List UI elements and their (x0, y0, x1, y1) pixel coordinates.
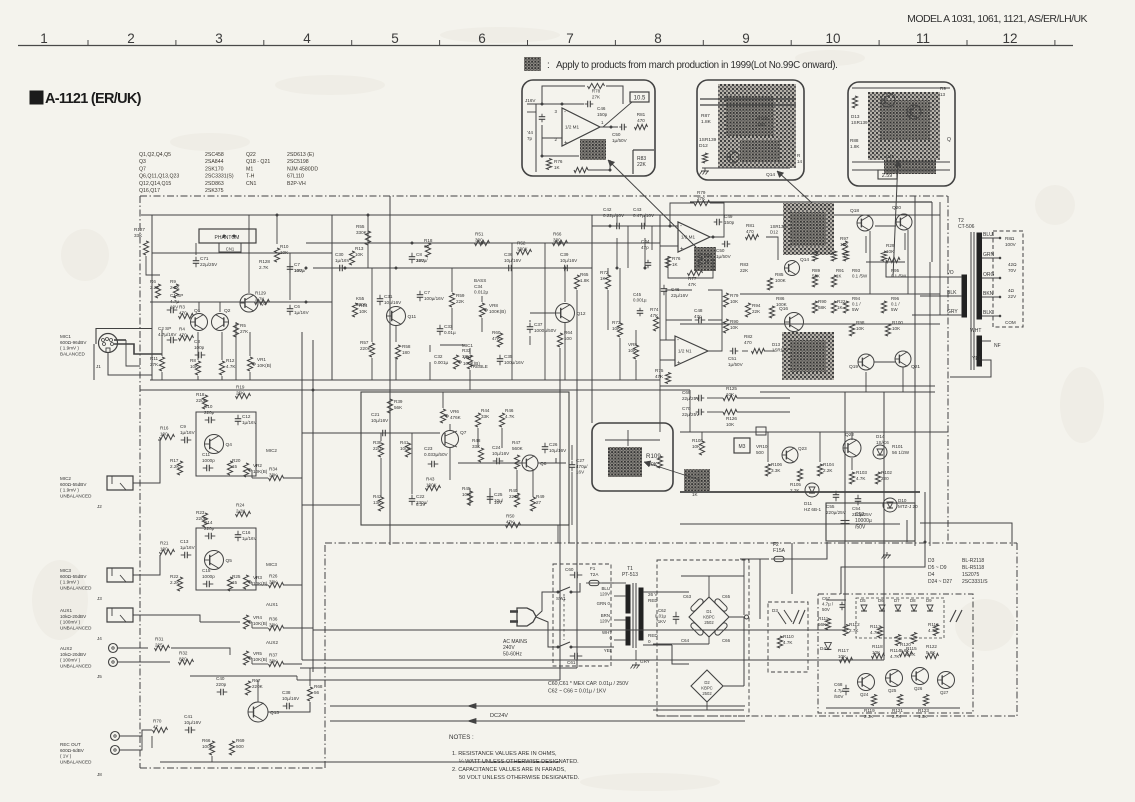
svg-text:220p: 220p (216, 682, 227, 687)
svg-text:BASS: BASS (474, 278, 486, 283)
svg-text:( 1V ): ( 1V ) (60, 754, 72, 759)
svg-text:240V: 240V (503, 645, 515, 651)
svg-text:( 100mV ): ( 100mV ) (60, 620, 81, 625)
svg-text:VR8: VR8 (489, 303, 498, 308)
svg-text:15: 15 (232, 464, 238, 469)
resistor R117 (840, 657, 853, 662)
wire q13 bottom (211, 756, 213, 762)
svg-text:10K: 10K (612, 326, 621, 331)
svg-text:Q16: Q16 (779, 306, 788, 312)
svg-text:MIC3: MIC3 (60, 568, 71, 573)
capacitor C71 (193, 260, 200, 262)
svg-text:BLK: BLK (947, 290, 957, 296)
wire mic3 stage box (196, 528, 256, 590)
wire T2 sec ORG (982, 277, 1000, 279)
transistor Q1 (191, 314, 208, 331)
svg-text:2: 2 (127, 31, 135, 46)
svg-text:BLK: BLK (983, 310, 993, 316)
svg-text:R80: R80 (704, 253, 713, 258)
svg-text:R59: R59 (456, 293, 465, 298)
svg-text:R119: R119 (864, 708, 875, 713)
svg-text:R76: R76 (672, 256, 681, 261)
wire amp mid rails (659, 226, 661, 360)
capacitor C25 (487, 496, 494, 498)
resistor R105 (797, 469, 802, 481)
svg-text:R23: R23 (196, 510, 205, 515)
svg-text:R9: R9 (170, 279, 176, 284)
switch SW1 pole1 (558, 587, 570, 592)
svg-text:10K(B): 10K(B) (253, 621, 268, 626)
svg-text:2.7K: 2.7K (255, 296, 265, 301)
rectifier dashed box (657, 560, 749, 716)
svg-text:R65: R65 (580, 272, 589, 277)
svg-text:R129: R129 (255, 291, 266, 296)
switch box SW1 dashed (553, 564, 611, 666)
svg-text:NJM 4580DD: NJM 4580DD (287, 166, 318, 172)
svg-text:C8: C8 (416, 252, 422, 257)
svg-text:C2 SP: C2 SP (158, 326, 171, 331)
resistor R49 (530, 497, 535, 511)
wire reg bottom rail (680, 523, 900, 525)
svg-text:16V: 16V (576, 470, 585, 475)
connector PHANTOM header (199, 229, 256, 243)
label R83 22K corner (633, 149, 654, 151)
svg-text:M3: M3 (739, 444, 746, 450)
svg-text:10K: 10K (730, 325, 739, 330)
svg-text:AUX2: AUX2 (266, 640, 278, 645)
svg-text:VR3: VR3 (253, 575, 262, 580)
svg-text:120V: 120V (600, 619, 610, 624)
wire box3 top (852, 87, 950, 89)
svg-text:D9: D9 (926, 598, 932, 603)
wire down feed x560 (559, 380, 561, 680)
capacitor C70 (698, 409, 700, 416)
svg-text:R41: R41 (400, 440, 409, 445)
svg-text:2SC3331(S): 2SC3331(S) (205, 174, 234, 180)
wire box1 top loop (542, 86, 585, 104)
resistor R102 (875, 472, 880, 484)
svg-text:D13: D13 (772, 342, 781, 347)
svg-text:600Ω-55dBV: 600Ω-55dBV (60, 574, 87, 579)
svg-text:J8: J8 (97, 772, 102, 777)
svg-text:10kΩ-20dBV: 10kΩ-20dBV (60, 652, 87, 657)
svg-text:J5: J5 (97, 674, 102, 679)
svg-text:12: 12 (1002, 31, 1017, 46)
transistor Q27 (938, 672, 955, 689)
resistor R123 (923, 695, 928, 706)
wire reg verticals (701, 432, 703, 440)
resistor R129 (255, 299, 270, 304)
svg-text:50 VOLT UNLESS OTHERWISE DESIG: 50 VOLT UNLESS OTHERWISE DESIGNATED. (459, 775, 580, 781)
halftone blob box2 (718, 84, 796, 168)
resistor R64 (557, 333, 562, 347)
wire bottom collect y668 (300, 667, 577, 669)
svg-text:NF: NF (994, 343, 1001, 349)
wire opampB rails (660, 339, 675, 341)
resistor R111 (825, 619, 830, 630)
svg-text:R42: R42 (373, 494, 382, 499)
svg-text:I/O: I/O (947, 270, 954, 276)
wire board feed step (841, 542, 925, 594)
transistor Q inset3 a (881, 93, 895, 107)
svg-text:MIC1: MIC1 (462, 343, 473, 348)
svg-text:D1: D1 (706, 609, 712, 614)
resistor R38 (378, 443, 383, 457)
svg-text:1K: 1K (837, 305, 844, 310)
transistor Q18 (857, 215, 873, 231)
svg-text:Q21: Q21 (911, 364, 920, 370)
arrow dc24 b (468, 719, 476, 724)
svg-text:22K: 22K (740, 268, 749, 273)
svg-text:R69: R69 (236, 738, 245, 743)
svg-text:R9: R9 (940, 86, 946, 91)
connector J5 rca a (109, 644, 118, 653)
wire q19 q21 join (874, 361, 895, 363)
svg-text:J16V: J16V (525, 98, 536, 103)
resistor R81 main (746, 234, 759, 239)
svg-text:R91: R91 (836, 268, 845, 273)
svg-text:4.7µ: 4.7µ (834, 688, 843, 693)
inset box2 outline (697, 80, 804, 180)
svg-text:330K: 330K (356, 302, 368, 307)
svg-text:220: 220 (373, 446, 381, 451)
svg-text:R31: R31 (155, 637, 164, 642)
svg-text:2502: 2502 (702, 691, 712, 696)
led D3 sym (778, 612, 786, 624)
svg-text:AUX1: AUX1 (60, 608, 72, 613)
capacitor C59 (841, 520, 850, 522)
svg-text:F1: F1 (590, 566, 596, 571)
svg-text:CN1: CN1 (226, 247, 235, 252)
svg-text:10V: 10V (170, 305, 179, 310)
svg-text:R120: R120 (900, 642, 911, 647)
connector J3 jack (107, 568, 133, 582)
capacitor C22 (409, 498, 416, 500)
wire y676 rail (190, 675, 297, 677)
svg-text:C70: C70 (682, 406, 691, 411)
svg-text:47p: 47p (694, 314, 702, 319)
svg-text:R5: R5 (240, 323, 246, 328)
boundary right dash-dot (947, 196, 949, 543)
svg-text:C48: C48 (694, 308, 703, 313)
svg-text:R57: R57 (360, 340, 369, 345)
svg-text:C10: C10 (204, 404, 213, 409)
wire tone vertical x512 (511, 243, 513, 380)
resistor R118 (872, 653, 885, 658)
capacitor C50 (621, 124, 623, 131)
wire q8 out (538, 458, 556, 463)
inset box3 outline (848, 82, 955, 186)
svg-text:150p: 150p (597, 112, 608, 117)
grid tick (878, 40, 880, 46)
svg-text:BALANCED: BALANCED (60, 351, 85, 356)
label 2.59 box (878, 170, 897, 179)
resistor R17 (177, 461, 182, 475)
svg-text:33K: 33K (269, 658, 278, 663)
transistor Q11 (387, 307, 406, 326)
wire stage mid rail (150, 301, 332, 303)
svg-text:0.1 /: 0.1 / (891, 302, 900, 307)
transistor Q5 (205, 551, 224, 570)
resistor R65 (574, 275, 579, 289)
wire toneblk q8 row (458, 462, 522, 464)
svg-text:Q3: Q3 (139, 159, 146, 165)
wire mic1 mid rail y253 (152, 252, 332, 254)
svg-text:AUX1: AUX1 (266, 602, 278, 607)
wire T2 sec BKN (982, 296, 1000, 298)
svg-text:C42: C42 (603, 207, 612, 212)
capacitor C1 input (539, 116, 546, 118)
svg-text:C27: C27 (576, 458, 585, 463)
svg-text:C34: C34 (474, 284, 483, 289)
resistor R58 (395, 345, 400, 359)
svg-text:33K: 33K (269, 472, 278, 477)
capacitor C68 (843, 688, 850, 690)
wire t1 leads left (614, 582, 626, 584)
svg-text:Q1: Q1 (194, 308, 201, 314)
wire phantom drop (195, 243, 197, 255)
wire toneblk top stub (442, 392, 444, 408)
capacitor C43 (641, 223, 643, 230)
svg-text:AC MAINS: AC MAINS (503, 639, 528, 645)
resistor R81 (635, 124, 648, 129)
wire coupling drops (627, 226, 629, 268)
svg-text:R8: R8 (190, 358, 196, 363)
wire psu rail y559 (789, 558, 827, 560)
resistor R108 (699, 441, 704, 455)
svg-text:10µ/16V: 10µ/16V (384, 300, 402, 305)
svg-text:0.033µ/50V: 0.033µ/50V (424, 452, 449, 457)
svg-text:UNBALANCED: UNBALANCED (60, 759, 92, 764)
resistor R39 (387, 399, 392, 413)
wire V+ top rail (141, 214, 940, 216)
svg-text:22K: 22K (637, 162, 647, 168)
svg-text:Q6,Q11,Q13,Q23: Q6,Q11,Q13,Q23 (139, 174, 179, 180)
svg-text:4.7K: 4.7K (890, 654, 900, 659)
svg-text:R58: R58 (402, 344, 411, 349)
svg-text:10000µ: 10000µ (855, 518, 872, 524)
svg-text:+: + (677, 361, 681, 367)
potentiometer VR7 (453, 355, 458, 369)
svg-text::: : (547, 60, 550, 71)
transistor Q4 (205, 435, 224, 454)
svg-text:470: 470 (179, 310, 187, 315)
connector J8 rca a (111, 732, 120, 741)
resistor R75 (665, 373, 670, 384)
boundary psu bottom dash-dot (657, 715, 1017, 717)
svg-text:Q2: Q2 (224, 308, 231, 314)
capacitor C15 (206, 581, 208, 588)
svg-text:10K: 10K (730, 299, 739, 304)
svg-text:1S/C6: 1S/C6 (876, 440, 889, 445)
svg-text:C15: C15 (202, 568, 211, 573)
svg-text:330K: 330K (517, 246, 529, 251)
svg-text:D13: D13 (851, 114, 860, 119)
svg-text:J2: J2 (97, 504, 102, 509)
svg-text:( 1.9mV ): ( 1.9mV ) (60, 488, 79, 493)
svg-text:1000µ/50V: 1000µ/50V (534, 328, 557, 333)
svg-text:VR6: VR6 (450, 409, 459, 414)
diode row box (856, 598, 944, 638)
svg-text:1: 1 (40, 31, 48, 46)
wire out node emitters (866, 261, 905, 263)
transformer T2 primary bar (962, 275, 967, 317)
svg-text:16V: 16V (294, 268, 303, 273)
capacitor C64 (690, 622, 704, 636)
transistor Q8 (522, 455, 538, 471)
svg-text:4.7µ /: 4.7µ / (822, 602, 834, 607)
svg-text:KBPC: KBPC (703, 614, 714, 619)
svg-text:25K: 25K (236, 390, 245, 395)
wire tone bottom rail (332, 379, 660, 381)
svg-text:M1: M1 (246, 166, 253, 172)
svg-text:Q11: Q11 (408, 314, 417, 320)
svg-text:R16: R16 (160, 426, 169, 431)
resistor R90 (723, 319, 728, 333)
svg-text:BRN: BRN (601, 613, 610, 618)
svg-text:R100: R100 (757, 116, 769, 122)
capacitor C60 (574, 572, 576, 579)
svg-text:2.7K: 2.7K (849, 628, 859, 633)
diode D5 (861, 605, 867, 611)
svg-text:1µ/16V: 1µ/16V (335, 258, 351, 263)
capacitor C24 (496, 458, 498, 465)
svg-text:R46: R46 (505, 408, 514, 413)
svg-text:100K: 100K (775, 278, 787, 283)
svg-text:16V: 16V (494, 500, 503, 505)
resistor R4 (179, 335, 194, 340)
svg-text:0.47µ/16V: 0.47µ/16V (633, 213, 655, 218)
wire board bottom rail (826, 707, 960, 709)
resistor R5 (233, 323, 238, 337)
svg-text:100K: 100K (776, 302, 788, 307)
svg-text:( 1.9mV ): ( 1.9mV ) (60, 580, 79, 585)
svg-text:100K: 100K (400, 446, 412, 451)
transistor Q19 (858, 354, 874, 370)
svg-text:2SA844: 2SA844 (205, 159, 224, 165)
resistor R24 (236, 511, 251, 516)
wire board feed (791, 543, 793, 594)
svg-text:BL-R2118: BL-R2118 (962, 558, 984, 564)
boundary step vertical dash-dot (324, 543, 326, 768)
wire board top rail (826, 599, 846, 601)
svg-text:R39: R39 (394, 399, 403, 404)
wire psu to board (745, 629, 768, 631)
wire stub Q3 col (248, 215, 250, 293)
svg-text:0: 0 (648, 639, 651, 644)
svg-text:100: 100 (160, 431, 168, 436)
svg-text:R105: R105 (790, 482, 801, 487)
wire tone vertical x545 (544, 243, 546, 380)
svg-text:R26: R26 (269, 574, 278, 579)
svg-text:R88: R88 (850, 138, 859, 143)
wire aux return (171, 648, 230, 655)
svg-text:10K: 10K (838, 654, 847, 659)
capacitor C31 (377, 298, 384, 300)
boundary top dash-dot (140, 195, 948, 197)
svg-text:R50: R50 (506, 514, 515, 519)
transformer T1 primary bar b (626, 617, 630, 645)
svg-text:0.01µ: 0.01µ (444, 330, 456, 335)
halftone blob Q18 area (783, 203, 834, 255)
svg-text:1K: 1K (704, 259, 711, 264)
svg-text:10K: 10K (280, 250, 289, 255)
svg-text:2.7K: 2.7K (892, 714, 902, 719)
svg-text:1/2 M1: 1/2 M1 (681, 235, 695, 240)
title block square (30, 91, 43, 104)
wire long vertical x592 (591, 215, 593, 423)
wire r34 to bus (283, 477, 302, 479)
svg-text:R117: R117 (838, 648, 849, 653)
fuse F2 (774, 556, 784, 561)
svg-text:R116: R116 (928, 622, 939, 627)
svg-text:5.6K: 5.6K (926, 650, 936, 655)
svg-text:2.2K: 2.2K (236, 508, 246, 513)
wire aux bus right2 (302, 659, 884, 661)
svg-text:2.3K: 2.3K (864, 714, 874, 719)
boundary mid horizontal dash-dot (325, 542, 1017, 544)
svg-text:2.2K: 2.2K (170, 580, 180, 585)
svg-text:R6: R6 (150, 279, 156, 284)
capacitor (431, 461, 433, 468)
svg-text:R37: R37 (269, 653, 278, 658)
svg-text:10K: 10K (628, 348, 637, 353)
transistor Q26 (912, 668, 929, 685)
svg-text:R64: R64 (564, 330, 573, 335)
halftone blob box2 dark (726, 96, 774, 136)
wire f2 line (740, 558, 769, 560)
wire bus left vertical b (312, 340, 314, 672)
wire mic1 loop top (96, 329, 152, 345)
wire mute internal (627, 430, 629, 446)
resistor R26 (269, 582, 284, 587)
transistor Q14 main (785, 261, 800, 276)
svg-text:27K: 27K (150, 362, 159, 367)
svg-text:C13: C13 (180, 539, 189, 544)
resistor R6 (155, 284, 160, 298)
svg-text:10K: 10K (462, 492, 471, 497)
svg-text:0.1 /5W: 0.1 /5W (852, 274, 868, 279)
svg-text:R87: R87 (701, 113, 710, 119)
resistor R76 (546, 159, 551, 170)
svg-text:0.012µ: 0.012µ (474, 290, 488, 295)
svg-text:R83: R83 (740, 262, 749, 267)
svg-text:56K: 56K (818, 622, 827, 627)
svg-text:TREBLE: TREBLE (470, 364, 488, 369)
wire q11 stubs (395, 326, 397, 342)
svg-text:220K: 220K (196, 398, 208, 403)
resistor R33 (467, 355, 472, 369)
svg-text:Q12: Q12 (577, 311, 586, 317)
svg-text:WHT: WHT (970, 328, 981, 334)
resistor R72 (605, 275, 610, 289)
capacitor C61 (574, 653, 576, 660)
svg-text:R21: R21 (160, 541, 169, 546)
wire NF winding (982, 340, 991, 342)
svg-text:J4: J4 (97, 636, 102, 641)
resistor R50 (506, 522, 521, 527)
svg-text:C62 ~ C66 = 0.01µ / 1KV: C62 ~ C66 = 0.01µ / 1KV (548, 689, 607, 695)
wire long x940 (939, 202, 941, 315)
svg-text:Q19: Q19 (849, 364, 858, 370)
svg-text:3: 3 (215, 31, 223, 46)
wire T2 in GRY (912, 314, 962, 316)
transformer T2 core (970, 232, 972, 370)
svg-text:10µ/16V: 10µ/16V (282, 696, 300, 701)
svg-text:33K: 33K (472, 444, 481, 449)
resistor R78 (588, 83, 605, 88)
svg-text:27: 27 (536, 500, 542, 505)
